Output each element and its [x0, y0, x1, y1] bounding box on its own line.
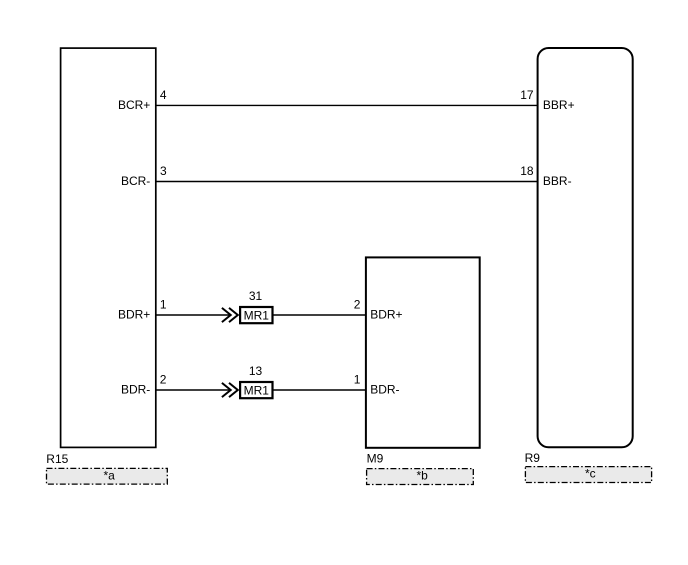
- connector R9 body: [538, 48, 633, 447]
- connector MR1 (upper) body: [240, 307, 272, 323]
- connector color box *a: [47, 468, 168, 484]
- svg-text:1: 1: [354, 373, 361, 387]
- svg-text:17: 17: [520, 88, 534, 102]
- wire BDR+ right segment: [273, 314, 366, 316]
- svg-text:1: 1: [160, 298, 167, 312]
- svg-text:BDR-: BDR-: [121, 382, 150, 396]
- connector R15 body: [61, 48, 156, 447]
- svg-text:4: 4: [160, 88, 167, 102]
- svg-text:R9: R9: [525, 451, 541, 465]
- svg-text:R15: R15: [46, 452, 68, 466]
- svg-text:BDR+: BDR+: [370, 307, 402, 321]
- wire BDR- left segment: [156, 389, 231, 391]
- svg-text:3: 3: [160, 164, 167, 178]
- svg-text:31: 31: [249, 289, 263, 303]
- shield arrows on BDR+ wire: [222, 308, 238, 322]
- svg-text:MR1: MR1: [244, 383, 270, 397]
- svg-text:18: 18: [520, 164, 534, 178]
- svg-text:2: 2: [160, 373, 167, 387]
- svg-text:13: 13: [249, 364, 263, 378]
- wire BDR+ left segment: [156, 314, 231, 316]
- svg-text:*a: *a: [104, 469, 116, 483]
- svg-text:BDR+: BDR+: [118, 307, 150, 321]
- svg-text:2: 2: [354, 298, 361, 312]
- svg-text:BBR+: BBR+: [543, 98, 575, 112]
- wire BDR- right segment: [273, 389, 366, 391]
- connector color box *b: [367, 469, 474, 485]
- wire BCR- to BBR-: [156, 181, 538, 183]
- connector color box *c: [525, 467, 651, 483]
- wire BCR+ to BBR+: [156, 104, 538, 106]
- connector M9 body: [366, 257, 480, 447]
- svg-text:MR1: MR1: [244, 308, 270, 322]
- shield arrows on BDR- wire: [222, 383, 238, 397]
- svg-text:*b: *b: [417, 469, 429, 483]
- svg-text:BBR-: BBR-: [543, 174, 572, 188]
- svg-text:M9: M9: [367, 452, 384, 466]
- svg-text:BDR-: BDR-: [370, 382, 399, 396]
- svg-text:BCR-: BCR-: [121, 174, 150, 188]
- svg-text:*c: *c: [585, 467, 596, 481]
- connector MR1 (lower) body: [240, 382, 272, 398]
- svg-text:BCR+: BCR+: [118, 98, 150, 112]
